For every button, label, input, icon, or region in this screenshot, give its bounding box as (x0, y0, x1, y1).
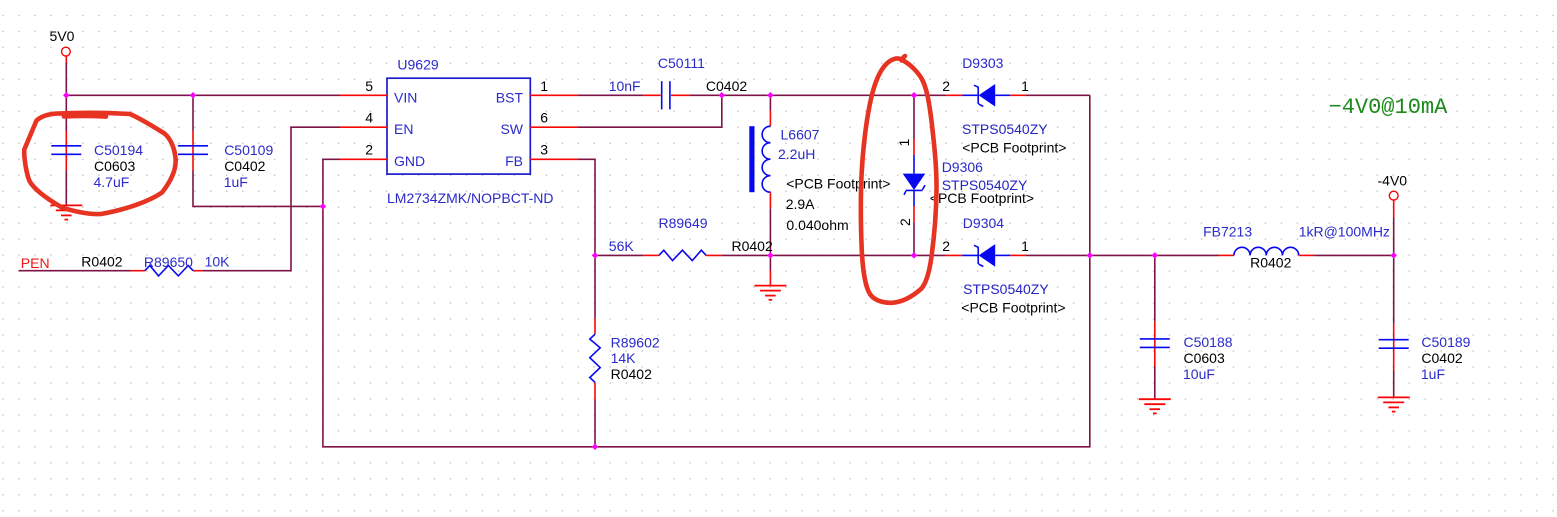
wire -4V0 down (1393, 218, 1395, 255)
svg-text:C50194: C50194 (94, 142, 143, 158)
junction R89602/bottom rail (592, 444, 599, 451)
resistor R89602 (590, 318, 660, 400)
svg-text:1: 1 (540, 78, 548, 94)
diode D9306 (896, 95, 1034, 255)
wire C50194 to ground (65, 171, 67, 206)
svg-text:2: 2 (942, 238, 950, 254)
junction C50188 (1152, 252, 1159, 259)
wire SW row (578, 95, 722, 127)
wire D9304 to right vertical (1026, 254, 1090, 256)
svg-text:SW: SW (500, 121, 523, 137)
junction BST/SW (719, 92, 726, 99)
ferrite bead FB7213 (1203, 223, 1390, 270)
svg-text:L6607: L6607 (781, 126, 820, 142)
svg-text:4.7uF: 4.7uF (94, 174, 130, 190)
svg-text:C0402: C0402 (224, 158, 265, 174)
svg-text:C50188: C50188 (1184, 334, 1233, 350)
wire L6607 top (769, 95, 771, 110)
svg-text:2: 2 (365, 142, 373, 158)
wire R89602 bottom (594, 400, 596, 447)
wire C50188 to ground (1154, 366, 1156, 399)
junction C50109/-4V0 vertical (320, 203, 327, 210)
junction -4V0 vertical/mid rail (1087, 252, 1094, 259)
wire FB net (578, 159, 595, 255)
svg-text:2.9A: 2.9A (786, 196, 815, 212)
pin 5 VIN (340, 78, 417, 106)
capacitor C50111 (609, 55, 748, 110)
wire PEN to EN (203, 127, 340, 271)
svg-text:EN: EN (394, 121, 413, 137)
wire SW rail to D9303 (914, 94, 946, 96)
wire D9303 to right vertical (1026, 94, 1090, 96)
annotation red circle around C50194 (24, 113, 175, 214)
svg-text:6: 6 (540, 110, 548, 126)
svg-text:D9303: D9303 (962, 55, 1003, 71)
svg-text:<PCB Footprint>: <PCB Footprint> (786, 175, 890, 191)
svg-text:1: 1 (1021, 78, 1029, 94)
svg-text:10nF: 10nF (609, 78, 641, 94)
svg-text:1uF: 1uF (1421, 366, 1445, 382)
diode D9303 (942, 55, 1066, 156)
annotation red circle around D9306 (861, 56, 937, 303)
wire 5V0 to C50109 (192, 95, 194, 131)
svg-text:−4V0@10mA: −4V0@10mA (1329, 95, 1449, 120)
svg-text:BST: BST (496, 89, 524, 105)
svg-text:FB: FB (505, 153, 523, 169)
capacitor C50189 (1379, 324, 1471, 383)
pin 6 SW (500, 110, 577, 138)
svg-text:1: 1 (1021, 238, 1029, 254)
wire BST to C50111 (578, 94, 644, 96)
wire mid rail (770, 254, 914, 256)
wire C50188 top (1154, 255, 1156, 321)
junction FB node (592, 252, 599, 259)
svg-text:D9304: D9304 (963, 215, 1004, 231)
capacitor C50188 (1140, 322, 1233, 382)
svg-text:2: 2 (897, 218, 913, 226)
svg-text:1uF: 1uF (224, 174, 248, 190)
svg-text:2: 2 (942, 78, 950, 94)
junction 5V0/C50194 (63, 92, 70, 99)
wire SW rail to L6607 (722, 94, 771, 96)
svg-text:R89649: R89649 (659, 215, 708, 231)
wire to D9304 (914, 254, 946, 256)
diode D9304 (942, 215, 1065, 316)
svg-text:LM2734ZMK/NOPBCT-ND: LM2734ZMK/NOPBCT-ND (387, 190, 553, 206)
wire R89649 to gnd node (722, 254, 770, 256)
wire SW rail to D9306 (770, 94, 914, 96)
wire -4V0 loop (GND pin, bottom rail, right vertical) (323, 95, 1090, 447)
svg-text:C0603: C0603 (1184, 350, 1225, 366)
svg-text:C0402: C0402 (1421, 350, 1462, 366)
svg-text:14K: 14K (611, 350, 637, 366)
svg-text:STPS0540ZY: STPS0540ZY (962, 121, 1048, 137)
svg-text:C0402: C0402 (706, 78, 747, 94)
wire 5V0 vertical (65, 63, 67, 96)
ground C50189 (1378, 397, 1410, 411)
svg-text:3: 3 (540, 142, 548, 158)
junction D9306/D9304 (911, 252, 918, 259)
wire C50109 bottom to -4V0 net (193, 171, 323, 207)
svg-text:5V0: 5V0 (50, 28, 75, 44)
wire FB7213 to -4V0 node (1314, 254, 1394, 256)
svg-text:<PCB Footprint>: <PCB Footprint> (930, 190, 1034, 206)
svg-text:<PCB Footprint>: <PCB Footprint> (962, 140, 1066, 156)
svg-text:C50109: C50109 (224, 142, 273, 158)
svg-text:R0402: R0402 (1250, 255, 1291, 271)
svg-text:-4V0: -4V0 (1378, 172, 1408, 188)
svg-text:PEN: PEN (21, 255, 50, 271)
ground mid (754, 286, 786, 300)
wire -4V0 rail right (1090, 254, 1219, 256)
svg-text:VIN: VIN (394, 89, 417, 105)
wire 5V0 top rail (66, 94, 340, 96)
power symbol -4V0 (1378, 172, 1408, 218)
svg-text:D9306: D9306 (942, 159, 983, 175)
svg-text:10K: 10K (205, 254, 231, 270)
wire PEN left (19, 270, 131, 272)
junction L6607/gnd (767, 252, 774, 259)
wire gnd stub (769, 255, 771, 270)
svg-text:<PCB Footprint>: <PCB Footprint> (961, 300, 1065, 316)
svg-text:2.2uH: 2.2uH (778, 146, 815, 162)
wire C50189 to ground (1393, 371, 1395, 397)
wire C50189 top (1393, 255, 1395, 323)
svg-text:R89602: R89602 (611, 334, 660, 350)
junction SW/L6607 (767, 92, 774, 99)
svg-text:R0402: R0402 (732, 238, 773, 254)
svg-text:0.040ohm: 0.040ohm (786, 217, 848, 233)
wire L6607 bottom (769, 208, 771, 255)
svg-text:1kR@100MHz: 1kR@100MHz (1299, 223, 1390, 239)
svg-text:R0402: R0402 (81, 253, 122, 269)
capacitor C50109 (178, 131, 273, 190)
svg-text:STPS0540ZY: STPS0540ZY (963, 281, 1049, 297)
svg-text:C50189: C50189 (1421, 334, 1470, 350)
svg-text:FB7213: FB7213 (1203, 223, 1252, 239)
pin 3 FB (505, 142, 577, 170)
svg-text:GND: GND (394, 153, 425, 169)
junction 5V0/C50109 (190, 92, 197, 99)
capacitor C50194 (51, 131, 143, 190)
svg-text:5: 5 (365, 78, 373, 94)
svg-text:1: 1 (896, 138, 912, 146)
inductor L6607 (749, 110, 890, 233)
wire 5V0 to C50194 (65, 95, 67, 131)
resistor R89650 (81, 253, 230, 276)
svg-text:C50111: C50111 (658, 55, 705, 71)
power symbol 5V0 (50, 28, 75, 63)
pin 4 EN (340, 110, 413, 138)
ground C50188 (1139, 399, 1171, 413)
svg-text:56K: 56K (609, 238, 635, 254)
svg-text:4: 4 (365, 110, 373, 126)
wire FB to R89649 (595, 254, 643, 256)
resistor R89649 (609, 215, 773, 261)
junction -4V0 output (1390, 252, 1397, 259)
ground C50194 (50, 205, 82, 219)
pin 2 GND (340, 142, 425, 170)
wire C50111 to SW node (689, 94, 721, 96)
svg-text:10uF: 10uF (1183, 366, 1215, 382)
junction SW/D9306 (911, 92, 918, 99)
pin 1 BST (496, 78, 578, 106)
svg-text:U9629: U9629 (397, 57, 438, 73)
wire FB divider vertical (594, 255, 596, 318)
svg-text:R0402: R0402 (611, 366, 652, 382)
svg-text:C0603: C0603 (94, 158, 135, 174)
svg-text:R89650: R89650 (144, 254, 193, 270)
IC U9629 body (387, 57, 553, 206)
